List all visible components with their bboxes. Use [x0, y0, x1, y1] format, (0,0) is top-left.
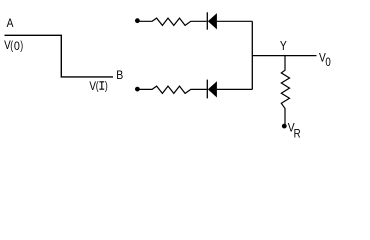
svg-text:0: 0	[325, 55, 331, 69]
svg-text:B: B	[116, 68, 123, 82]
svg-text:): )	[20, 38, 23, 52]
svg-text:(: (	[10, 38, 13, 52]
svg-text:A: A	[7, 16, 14, 30]
svg-text:R: R	[294, 127, 301, 141]
svg-text:Y: Y	[280, 39, 287, 53]
svg-text:0: 0	[14, 39, 20, 53]
svg-text:): )	[105, 79, 108, 93]
svg-text:(: (	[96, 79, 99, 93]
